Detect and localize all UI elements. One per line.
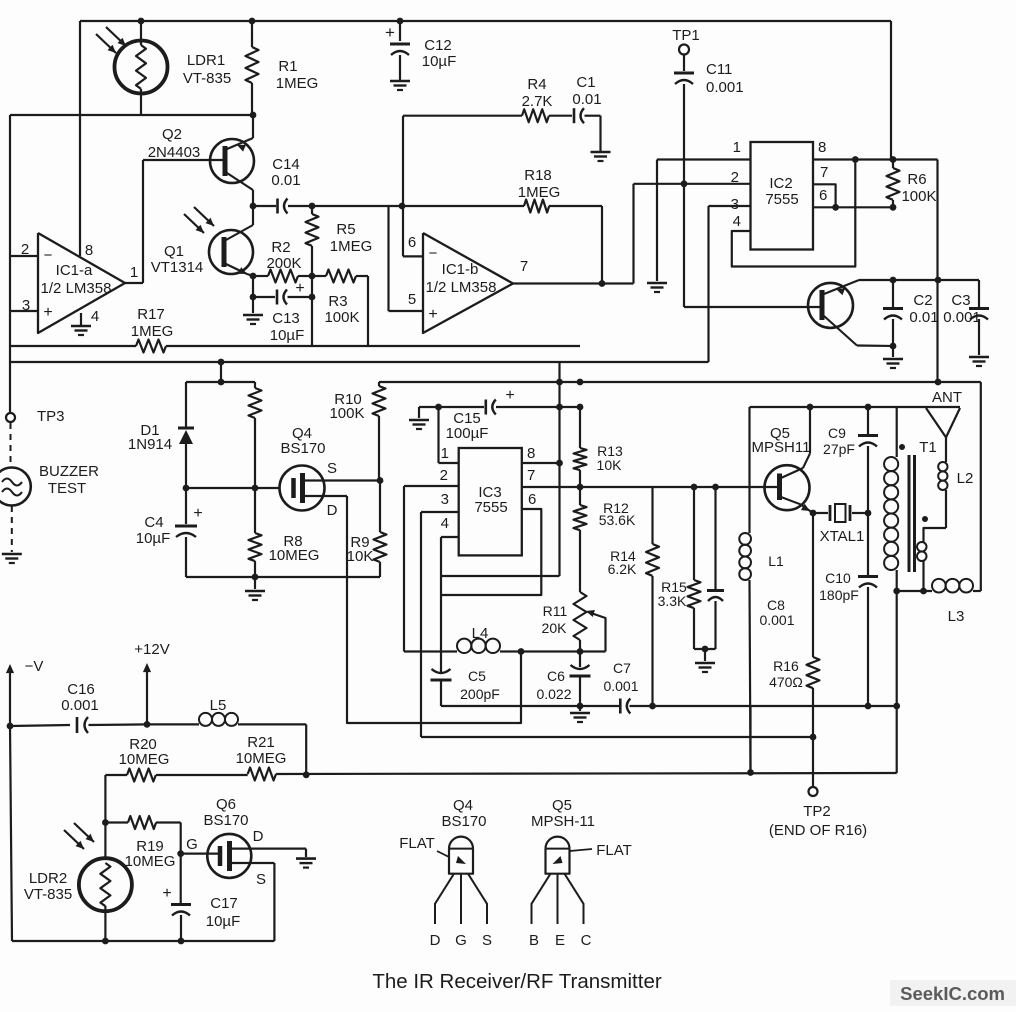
svg-text:1MEG: 1MEG [131, 323, 174, 340]
svg-text:IC1-a: IC1-a [56, 262, 93, 279]
svg-text:C17: C17 [210, 895, 238, 912]
svg-text:27pF: 27pF [823, 441, 855, 457]
svg-text:−: − [44, 247, 53, 264]
svg-text:R16: R16 [773, 658, 799, 674]
svg-text:1: 1 [130, 264, 138, 281]
svg-text:0.01: 0.01 [271, 172, 300, 189]
svg-text:+12V: +12V [134, 641, 169, 658]
svg-text:100µF: 100µF [446, 425, 489, 442]
svg-text:10µF: 10µF [422, 53, 457, 70]
svg-text:0.001: 0.001 [603, 678, 638, 694]
svg-text:1MEG: 1MEG [330, 238, 373, 255]
svg-text:BS170: BS170 [441, 813, 486, 830]
svg-text:B: B [529, 932, 539, 949]
svg-text:IC2: IC2 [769, 175, 792, 192]
svg-text:R18: R18 [524, 167, 552, 184]
svg-text:C16: C16 [67, 681, 95, 698]
svg-text:10µF: 10µF [206, 913, 241, 930]
svg-text:The IR Receiver/RF Transmitter: The IR Receiver/RF Transmitter [372, 970, 662, 993]
svg-text:C2: C2 [913, 292, 932, 309]
svg-text:R6: R6 [907, 171, 926, 188]
svg-text:7: 7 [527, 467, 535, 484]
svg-text:8: 8 [85, 242, 93, 259]
svg-text:−: − [429, 245, 438, 262]
svg-text:200K: 200K [266, 255, 301, 272]
svg-text:C5: C5 [468, 668, 486, 684]
svg-text:FLAT: FLAT [399, 835, 435, 852]
svg-text:MPSH11: MPSH11 [752, 439, 811, 456]
svg-text:2.7K: 2.7K [522, 93, 553, 110]
svg-text:IC1-b: IC1-b [442, 261, 479, 278]
svg-text:R1: R1 [278, 58, 297, 75]
svg-text:3: 3 [441, 491, 449, 508]
svg-text:2: 2 [440, 467, 448, 484]
svg-text:E: E [555, 932, 565, 949]
svg-text:L5: L5 [210, 697, 227, 714]
svg-text:200pF: 200pF [460, 686, 500, 702]
svg-text:20K: 20K [542, 620, 568, 636]
svg-text:10µF: 10µF [270, 327, 305, 344]
svg-text:LDR2: LDR2 [29, 870, 67, 887]
svg-text:+: + [193, 505, 202, 522]
svg-text:+: + [295, 280, 304, 297]
svg-text:180pF: 180pF [819, 587, 859, 603]
svg-text:C10: C10 [825, 570, 851, 586]
svg-text:L4: L4 [472, 625, 489, 642]
svg-text:10MEG: 10MEG [125, 853, 176, 870]
svg-text:C9: C9 [828, 425, 846, 441]
svg-text:XTAL1: XTAL1 [820, 528, 865, 545]
svg-text:100K: 100K [901, 188, 936, 205]
svg-text:D: D [430, 932, 441, 949]
svg-text:7: 7 [520, 258, 528, 275]
svg-text:S: S [256, 871, 266, 888]
svg-text:+: + [162, 885, 171, 902]
svg-text:R4: R4 [527, 76, 546, 93]
svg-text:1MEG: 1MEG [276, 75, 319, 92]
svg-text:G: G [186, 836, 198, 853]
svg-text:(END OF R16): (END OF R16) [769, 822, 867, 839]
svg-text:Q1: Q1 [164, 243, 184, 260]
svg-text:C7: C7 [613, 660, 631, 676]
svg-text:3.3K: 3.3K [658, 593, 687, 609]
svg-text:53.6K: 53.6K [599, 512, 636, 528]
svg-text:7555: 7555 [765, 191, 798, 208]
svg-text:−V: −V [25, 658, 44, 675]
svg-text:Q2: Q2 [162, 126, 182, 143]
svg-text:T1: T1 [919, 439, 937, 456]
svg-text:TP2: TP2 [803, 803, 831, 820]
svg-text:C14: C14 [272, 156, 300, 173]
svg-text:4: 4 [441, 515, 449, 532]
svg-text:1N914: 1N914 [128, 436, 172, 453]
svg-text:BS170: BS170 [280, 440, 325, 457]
svg-text:8: 8 [527, 445, 535, 462]
svg-text:6: 6 [408, 234, 416, 251]
svg-text:L3: L3 [948, 608, 965, 625]
svg-text:C8: C8 [767, 597, 785, 613]
svg-text:C3: C3 [951, 292, 970, 309]
svg-text:D: D [327, 502, 338, 519]
svg-text:VT-835: VT-835 [24, 886, 72, 903]
svg-text:3: 3 [731, 196, 739, 213]
svg-text:Q6: Q6 [216, 796, 236, 813]
svg-text:R2: R2 [271, 239, 290, 256]
svg-text:C1: C1 [576, 74, 595, 91]
svg-text:C: C [581, 932, 592, 949]
svg-text:0.01: 0.01 [909, 309, 938, 326]
svg-text:6: 6 [819, 187, 827, 204]
svg-text:R11: R11 [543, 603, 568, 619]
svg-text:VT1314: VT1314 [151, 259, 204, 276]
svg-text:6: 6 [528, 491, 536, 508]
svg-text:10K: 10K [597, 457, 623, 473]
svg-text:+: + [385, 23, 395, 42]
svg-text:Q4: Q4 [453, 797, 473, 814]
svg-text:+: + [428, 306, 437, 323]
svg-text:0.01: 0.01 [572, 91, 601, 108]
svg-text:SeekIC.com: SeekIC.com [900, 983, 1005, 1004]
svg-text:4: 4 [91, 308, 99, 325]
svg-text:TP1: TP1 [672, 27, 700, 44]
svg-text:10MEG: 10MEG [269, 547, 320, 564]
svg-text:10MEG: 10MEG [236, 750, 287, 767]
svg-text:C4: C4 [144, 514, 163, 531]
svg-text:+: + [43, 304, 52, 321]
svg-text:TP3: TP3 [37, 408, 65, 425]
svg-text:10K: 10K [347, 548, 374, 565]
svg-text:+: + [505, 387, 514, 404]
svg-text:R21: R21 [247, 734, 275, 751]
svg-text:6.2K: 6.2K [608, 561, 637, 577]
svg-text:4: 4 [733, 213, 741, 230]
svg-text:7: 7 [820, 164, 828, 181]
svg-text:1: 1 [733, 139, 741, 156]
svg-text:R5: R5 [336, 221, 355, 238]
svg-text:C11: C11 [706, 61, 732, 78]
svg-text:VT-835: VT-835 [183, 70, 231, 87]
svg-text:C13: C13 [272, 310, 300, 327]
svg-text:S: S [482, 932, 492, 949]
svg-text:R3: R3 [328, 293, 347, 310]
svg-text:C6: C6 [547, 668, 565, 684]
svg-text:L1: L1 [768, 553, 784, 569]
svg-text:TEST: TEST [48, 480, 86, 497]
svg-text:R17: R17 [137, 306, 165, 323]
svg-text:0.001: 0.001 [943, 309, 981, 326]
svg-text:C12: C12 [424, 37, 452, 54]
svg-text:7555: 7555 [474, 499, 507, 516]
svg-text:ANT: ANT [932, 389, 962, 406]
svg-text:G: G [455, 932, 467, 949]
svg-text:5: 5 [408, 291, 416, 308]
svg-text:8: 8 [818, 139, 826, 156]
svg-text:1/2 LM358: 1/2 LM358 [426, 279, 497, 296]
svg-text:L2: L2 [957, 470, 974, 487]
svg-text:LDR1: LDR1 [187, 52, 225, 69]
svg-text:Q5: Q5 [552, 797, 572, 814]
svg-text:0.001: 0.001 [706, 79, 744, 96]
svg-text:D: D [253, 828, 264, 845]
svg-text:2N4403: 2N4403 [148, 144, 201, 161]
svg-text:0.022: 0.022 [536, 686, 571, 702]
svg-text:1MEG: 1MEG [518, 184, 561, 201]
svg-text:MPSH-11: MPSH-11 [531, 813, 595, 830]
svg-text:470Ω: 470Ω [769, 674, 803, 690]
svg-text:BS170: BS170 [203, 812, 248, 829]
svg-text:1: 1 [441, 445, 449, 462]
svg-text:0.001: 0.001 [61, 697, 99, 714]
svg-text:10MEG: 10MEG [119, 751, 170, 768]
svg-text:1/2 LM358: 1/2 LM358 [41, 280, 112, 297]
svg-text:100K: 100K [324, 309, 359, 326]
svg-text:BUZZER: BUZZER [39, 463, 99, 480]
svg-text:S: S [327, 460, 337, 477]
svg-text:0.001: 0.001 [759, 612, 794, 628]
svg-text:10µF: 10µF [136, 530, 171, 547]
svg-text:100K: 100K [329, 405, 364, 422]
svg-text:FLAT: FLAT [596, 842, 632, 859]
